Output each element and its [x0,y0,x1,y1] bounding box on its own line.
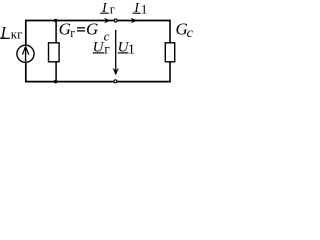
svg-text:1: 1 [141,1,148,16]
junction dot top (Gг branch) [54,19,58,23]
wire top rail [25,20,171,22]
wire left branch upper [25,20,27,46]
svg-text:г: г [110,2,115,17]
svg-text:c: c [187,26,194,41]
resistor Gc [165,43,174,62]
current source Iкг circle [17,45,34,62]
current source arrow (up) [25,47,27,62]
arrow Iг on top wire [104,18,111,24]
node terminal circle bottom [114,80,117,83]
svg-text:1: 1 [128,42,135,57]
wire right branch upper [169,20,171,43]
wire right branch lower [169,62,171,82]
wire bottom rail [25,81,171,83]
svg-text:кг: кг [11,26,23,41]
node terminal circle top [114,19,117,22]
voltage arrow U1 (down) [115,30,117,72]
svg-text:г: г [104,42,110,57]
wire Gг branch upper [55,21,57,44]
resistor Gг [49,43,60,62]
wire left branch lower [25,62,27,82]
svg-text:г: г [70,26,75,40]
junction dot bottom (Gг branch) [54,80,58,84]
wire Gг branch lower [55,62,57,82]
arrow I1 on top wire [131,18,138,24]
svg-text:G: G [59,19,71,38]
svg-text:G: G [86,19,98,38]
